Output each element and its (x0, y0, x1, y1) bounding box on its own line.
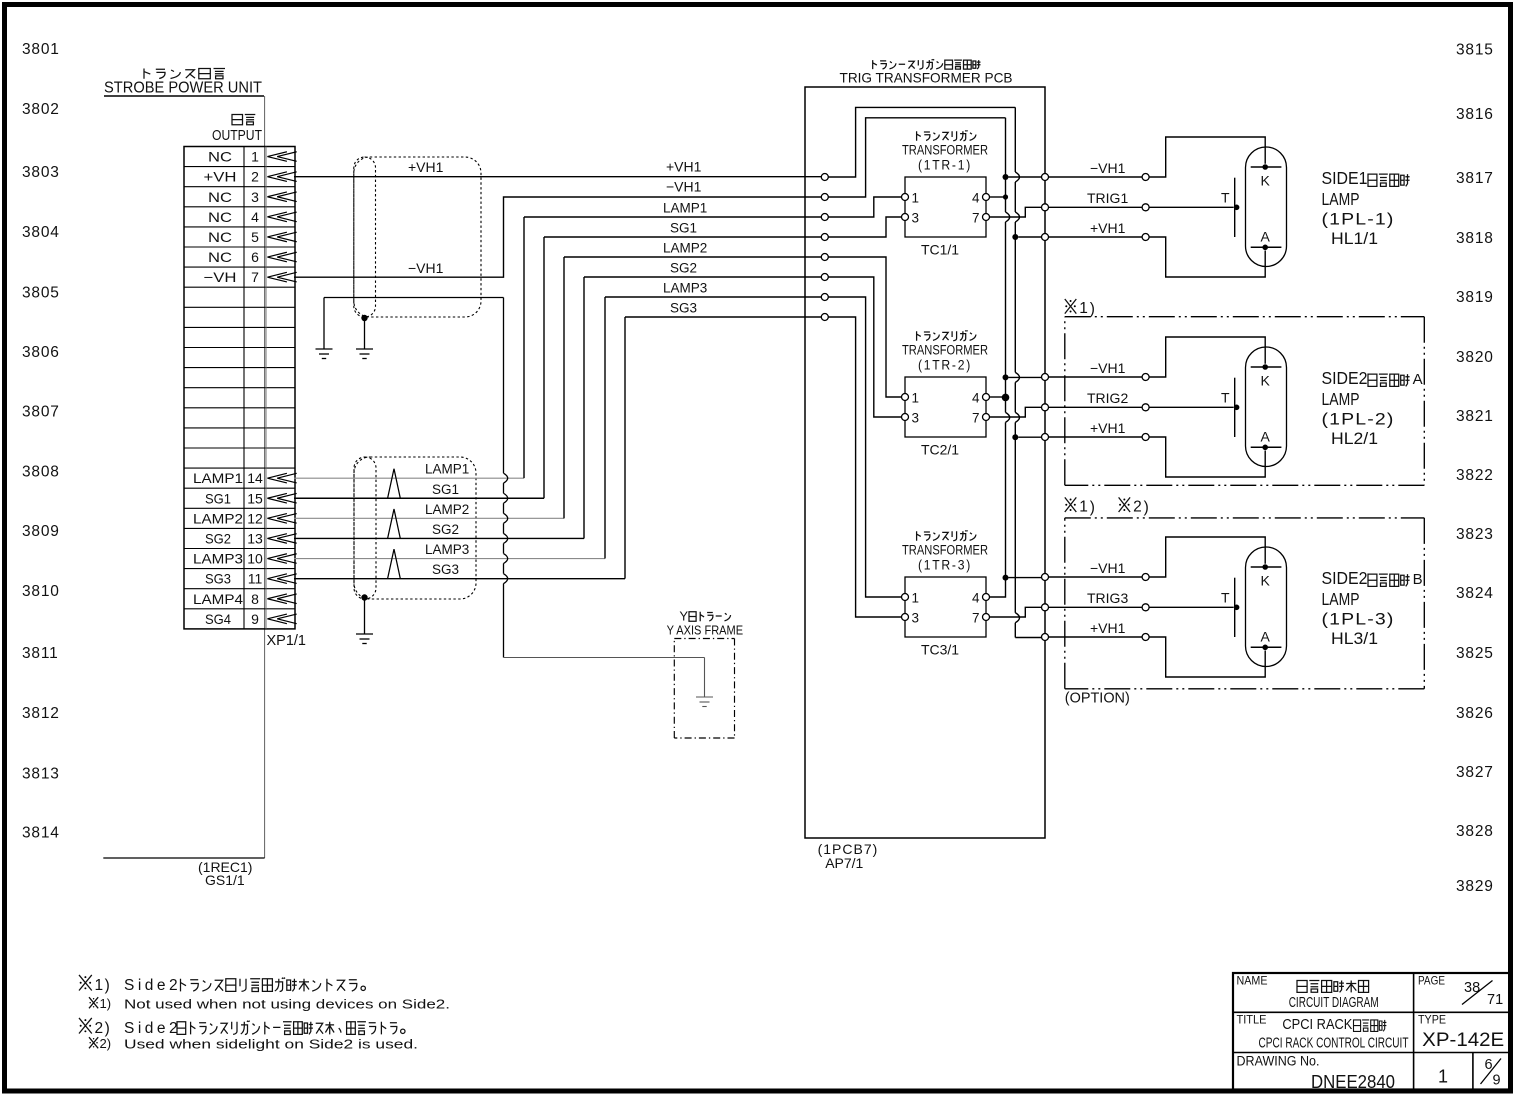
svg-text:2: 2 (1133, 499, 1142, 516)
svg-text:LAMP: LAMP (1322, 189, 1360, 209)
svg-text:SG3: SG3 (670, 301, 697, 316)
svg-text:3820: 3820 (1456, 349, 1494, 366)
svg-text:3825: 3825 (1456, 645, 1494, 662)
svg-text:3803: 3803 (22, 164, 60, 181)
svg-text:10: 10 (247, 551, 263, 567)
svg-text:Not used when not using device: Not used when not using devices on Side2… (124, 996, 450, 1011)
svg-text:3829: 3829 (1456, 878, 1494, 895)
svg-text:Used when sidelight on Side2 i: Used when sidelight on Side2 is used. (124, 1037, 418, 1052)
svg-text:NC: NC (208, 229, 232, 245)
svg-text:TRANSFORMER: TRANSFORMER (902, 143, 988, 158)
svg-text:7: 7 (972, 611, 980, 626)
svg-text:−VH1: −VH1 (1090, 560, 1126, 576)
svg-text:LAMP3: LAMP3 (193, 551, 243, 567)
svg-text:T: T (1221, 389, 1230, 405)
svg-text:+VH1: +VH1 (1090, 220, 1126, 236)
svg-text:3807: 3807 (22, 404, 60, 421)
svg-text:LAMP4: LAMP4 (193, 591, 243, 607)
svg-text:4: 4 (972, 591, 980, 606)
svg-text:NAME: NAME (1237, 974, 1268, 988)
svg-text:4: 4 (251, 209, 259, 225)
svg-text:SG3: SG3 (432, 562, 459, 577)
svg-text:11: 11 (248, 571, 263, 587)
svg-text:CIRCUIT DIAGRAM: CIRCUIT DIAGRAM (1289, 994, 1379, 1011)
svg-text:DRAWING No.: DRAWING No. (1237, 1054, 1320, 1069)
svg-text:K: K (1261, 573, 1271, 589)
svg-text:+VH: +VH (204, 169, 237, 185)
svg-text:HL2/1: HL2/1 (1331, 429, 1378, 448)
svg-text:7: 7 (251, 269, 259, 285)
svg-text:XP-142E: XP-142E (1422, 1030, 1504, 1051)
svg-text:5: 5 (251, 229, 259, 245)
svg-text:B: B (1413, 571, 1423, 588)
svg-text:(1PL-1): (1PL-1) (1322, 210, 1395, 229)
svg-text:LAMP3: LAMP3 (663, 281, 707, 296)
svg-text:1: 1 (251, 149, 259, 165)
svg-text:XP1/1: XP1/1 (267, 633, 307, 649)
svg-text:13: 13 (247, 530, 263, 546)
svg-text:2): 2) (100, 1036, 112, 1051)
svg-text:SG2: SG2 (432, 522, 459, 537)
svg-text:9: 9 (251, 611, 259, 627)
svg-text:3828: 3828 (1456, 823, 1494, 840)
svg-text:): ) (1090, 499, 1095, 516)
svg-text:−VH1: −VH1 (408, 260, 444, 276)
svg-text:3809: 3809 (22, 523, 60, 540)
svg-text:+VH1: +VH1 (666, 159, 702, 175)
svg-text:3: 3 (912, 611, 920, 626)
svg-text:HL3/1: HL3/1 (1331, 629, 1378, 648)
svg-text:3818: 3818 (1456, 230, 1494, 247)
svg-text:Side2: Side2 (124, 977, 181, 994)
svg-text:LAMP2: LAMP2 (193, 510, 243, 526)
svg-text:TC1/1: TC1/1 (921, 242, 959, 258)
svg-text:SIDE2: SIDE2 (1322, 568, 1368, 588)
svg-text:(1PL-3): (1PL-3) (1322, 610, 1395, 629)
svg-text:3827: 3827 (1456, 764, 1494, 781)
svg-text:GS1/1: GS1/1 (205, 872, 245, 888)
svg-text:SG2: SG2 (670, 261, 697, 276)
svg-text:TRIG TRANSFORMER PCB: TRIG TRANSFORMER PCB (840, 69, 1013, 85)
svg-text:−VH1: −VH1 (1090, 360, 1126, 376)
svg-text:−VH: −VH (204, 269, 237, 285)
svg-text:3805: 3805 (22, 285, 60, 302)
svg-text:SG1: SG1 (205, 490, 231, 506)
svg-text:CPCI RACK: CPCI RACK (1282, 1017, 1352, 1033)
svg-text:−VH1: −VH1 (1090, 160, 1126, 176)
svg-text:SG2: SG2 (205, 530, 231, 546)
svg-text:3: 3 (912, 411, 920, 426)
svg-text:2): 2) (95, 1020, 112, 1037)
svg-text:Side2: Side2 (124, 1020, 181, 1037)
svg-text:+VH1: +VH1 (1090, 620, 1126, 636)
svg-text:3817: 3817 (1456, 170, 1494, 187)
svg-text:3802: 3802 (22, 101, 60, 118)
svg-text:LAMP: LAMP (1322, 389, 1360, 409)
svg-text:−VH1: −VH1 (666, 179, 702, 195)
svg-text:A: A (1261, 429, 1271, 445)
svg-text:+VH1: +VH1 (1090, 420, 1126, 436)
svg-text:TRIG1: TRIG1 (1087, 190, 1128, 206)
svg-text:TRANSFORMER: TRANSFORMER (902, 343, 988, 358)
svg-text:3810: 3810 (22, 583, 60, 600)
svg-text:PAGE: PAGE (1418, 974, 1445, 988)
svg-text:6: 6 (251, 249, 259, 265)
svg-text:71: 71 (1487, 992, 1503, 1008)
svg-text:12: 12 (247, 510, 263, 526)
svg-text:(1TR-3): (1TR-3) (918, 557, 972, 573)
svg-text:1: 1 (1438, 1067, 1448, 1087)
svg-text:): ) (1090, 301, 1095, 318)
svg-text:+VH1: +VH1 (408, 159, 444, 175)
svg-text:(1PL-2): (1PL-2) (1322, 410, 1395, 429)
svg-text:TRANSFORMER: TRANSFORMER (902, 543, 988, 558)
svg-text:T: T (1221, 589, 1230, 605)
svg-text:A: A (1261, 629, 1271, 645)
svg-text:NC: NC (208, 189, 232, 205)
svg-text:3: 3 (912, 211, 920, 226)
svg-text:1: 1 (912, 391, 920, 406)
svg-text:3812: 3812 (22, 705, 60, 722)
svg-text:LAMP1: LAMP1 (663, 201, 707, 216)
svg-text:NC: NC (208, 149, 232, 165)
svg-text:3823: 3823 (1456, 526, 1494, 543)
svg-text:3806: 3806 (22, 344, 60, 361)
svg-text:1): 1) (100, 996, 112, 1011)
svg-text:LAMP2: LAMP2 (663, 241, 707, 256)
svg-text:TRIG3: TRIG3 (1087, 590, 1128, 606)
svg-text:NC: NC (208, 209, 232, 225)
svg-text:(1TR-1): (1TR-1) (918, 157, 972, 173)
svg-text:SG1: SG1 (432, 482, 459, 497)
svg-text:3811: 3811 (22, 645, 59, 662)
svg-text:DNEE2840: DNEE2840 (1311, 1071, 1395, 1092)
svg-text:3813: 3813 (22, 766, 60, 783)
svg-text:15: 15 (247, 490, 263, 506)
svg-text:Y AXIS FRAME: Y AXIS FRAME (667, 624, 744, 638)
svg-text:K: K (1261, 173, 1271, 189)
svg-text:1): 1) (95, 977, 112, 994)
svg-text:Y: Y (679, 609, 688, 624)
svg-text:A: A (1261, 229, 1271, 245)
svg-text:SG1: SG1 (670, 221, 697, 236)
svg-text:4: 4 (972, 391, 980, 406)
svg-text:1: 1 (1079, 499, 1088, 516)
svg-text:3821: 3821 (1456, 408, 1494, 425)
svg-text:14: 14 (247, 470, 263, 486)
svg-text:38: 38 (1464, 980, 1480, 996)
svg-text:A: A (1413, 371, 1423, 388)
svg-text:9: 9 (1493, 1073, 1501, 1089)
svg-text:T: T (1221, 189, 1230, 205)
svg-text:3814: 3814 (22, 825, 60, 842)
svg-text:SG4: SG4 (205, 611, 231, 627)
svg-text:AP7/1: AP7/1 (825, 855, 863, 871)
svg-text:1: 1 (912, 191, 920, 206)
svg-text:TC3/1: TC3/1 (921, 642, 959, 658)
svg-text:3816: 3816 (1456, 106, 1494, 123)
svg-text:LAMP1: LAMP1 (425, 462, 469, 477)
svg-text:TRIG2: TRIG2 (1087, 390, 1128, 406)
svg-text:TITLE: TITLE (1237, 1013, 1267, 1027)
svg-text:SG3: SG3 (205, 571, 231, 587)
svg-text:K: K (1261, 373, 1271, 389)
svg-text:3801: 3801 (22, 41, 60, 58)
svg-text:3: 3 (251, 189, 259, 205)
svg-text:3808: 3808 (22, 464, 60, 481)
svg-text:7: 7 (972, 211, 980, 226)
svg-text:TC2/1: TC2/1 (921, 442, 959, 458)
svg-text:HL1/1: HL1/1 (1331, 229, 1378, 248)
svg-text:LAMP1: LAMP1 (193, 470, 243, 486)
svg-text:3826: 3826 (1456, 705, 1494, 722)
svg-text:STROBE POWER UNIT: STROBE POWER UNIT (104, 80, 262, 97)
svg-text:7: 7 (972, 411, 980, 426)
svg-text:3822: 3822 (1456, 467, 1494, 484)
svg-text:): ) (1144, 499, 1149, 516)
svg-text:(OPTION): (OPTION) (1065, 690, 1130, 707)
svg-text:SIDE1: SIDE1 (1322, 168, 1368, 188)
svg-text:1: 1 (1079, 300, 1088, 317)
svg-text:OUTPUT: OUTPUT (212, 127, 262, 144)
svg-text:LAMP3: LAMP3 (425, 542, 469, 557)
svg-text:3819: 3819 (1456, 289, 1494, 306)
svg-text:2: 2 (251, 169, 259, 185)
svg-text:TYPE: TYPE (1418, 1013, 1446, 1027)
svg-text:3815: 3815 (1456, 42, 1494, 59)
svg-text:3824: 3824 (1456, 585, 1494, 602)
svg-text:3804: 3804 (22, 224, 60, 241)
svg-text:SIDE2: SIDE2 (1322, 368, 1368, 388)
svg-text:(1TR-2): (1TR-2) (918, 357, 972, 373)
svg-text:8: 8 (251, 591, 259, 607)
svg-text:LAMP2: LAMP2 (425, 502, 469, 517)
svg-text:4: 4 (972, 191, 980, 206)
svg-text:CPCI RACK CONTROL CIRCUIT: CPCI RACK CONTROL CIRCUIT (1259, 1036, 1409, 1052)
svg-text:NC: NC (208, 249, 232, 265)
svg-text:1: 1 (912, 591, 920, 606)
svg-text:LAMP: LAMP (1322, 589, 1360, 609)
